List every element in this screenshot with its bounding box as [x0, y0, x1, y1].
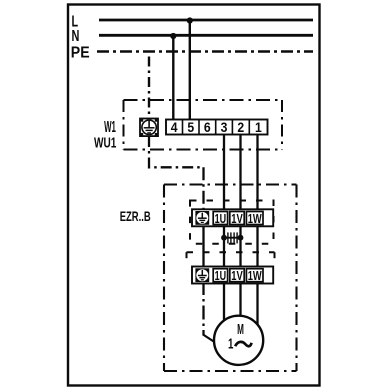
wire V (terminal 2 to motor) — [239, 134, 241, 317]
junction dot on N bus — [170, 33, 176, 39]
junction dot on wire U — [221, 235, 227, 241]
terminal strip 1U 1V 1W (upper) — [192, 209, 273, 226]
svg-text:3: 3 — [221, 120, 228, 135]
svg-text:1V: 1V — [231, 212, 243, 226]
svg-text:EZR..B: EZR..B — [120, 208, 151, 224]
svg-text:1W: 1W — [248, 212, 262, 226]
motor enclosure top edge (dashed) — [187, 251, 275, 253]
ground terminal (lower strip) — [195, 268, 209, 282]
wire W (terminal 1 to motor) — [256, 134, 258, 325]
plug connector contact bars — [227, 232, 238, 243]
enclosure box EZR..B (dash-dot) — [164, 185, 297, 372]
ground terminal (upper strip) — [195, 211, 209, 225]
svg-text:5: 5 — [187, 120, 194, 135]
svg-text:M: M — [237, 322, 244, 338]
svg-text:N: N — [72, 28, 80, 45]
motor enclosure side stubs (dashed) — [186, 252, 188, 262]
pin 1W (lower) — [246, 269, 263, 282]
terminal strip 1U 1V 1W (lower) — [192, 267, 273, 284]
border frame — [68, 5, 320, 386]
svg-text:PE: PE — [71, 45, 90, 62]
svg-text:2: 2 — [237, 120, 244, 135]
plug connector link wire — [224, 237, 241, 239]
svg-text:1W: 1W — [248, 269, 262, 283]
wire PE vertical into controller (dash-dot) — [202, 167, 204, 212]
svg-text:W1: W1 — [104, 119, 116, 136]
junction dot on L bus — [187, 17, 193, 23]
ground terminal W1 — [140, 119, 158, 137]
wire U (terminal 3 to motor) — [223, 134, 225, 321]
svg-text:1: 1 — [228, 337, 233, 353]
wire PE between terminal strips — [202, 222, 204, 270]
connector enclosure around strip 1 (dashed) — [190, 201, 274, 244]
pin 1W (upper) — [246, 212, 263, 225]
pin 1V (upper) — [230, 212, 244, 225]
junction dot on wire V — [238, 235, 244, 241]
wire PE below ground terminal (dash-dot) — [149, 136, 204, 167]
pin 1U (lower) — [213, 269, 227, 282]
terminal strip 4 5 6 3 2 1 — [166, 120, 268, 136]
wire PE below strip 2 (dash-dot) — [202, 281, 204, 336]
pin 1U (upper) — [213, 212, 227, 225]
wire N bus — [99, 34, 313, 37]
pin 1V (lower) — [230, 269, 244, 282]
svg-text:6: 6 — [204, 120, 211, 135]
wire N drop to terminal 4 — [172, 35, 174, 120]
svg-text:1: 1 — [255, 120, 262, 135]
wire PE drop (dash-dot) to ground terminal — [148, 57, 150, 119]
wire L drop to terminal 5 — [189, 20, 191, 120]
motor M1 circle — [214, 316, 263, 365]
svg-text:4: 4 — [171, 120, 178, 135]
wire L bus — [99, 19, 313, 22]
wire PE bus (dash-dot) — [97, 50, 313, 53]
enclosure box W1 (dash-dot) — [124, 100, 283, 150]
wire PE diagonal tick to motor frame — [203, 335, 215, 343]
svg-text:1V: 1V — [231, 269, 243, 283]
svg-text:1U: 1U — [215, 269, 227, 283]
svg-text:1U: 1U — [215, 212, 227, 226]
svg-text:WU1: WU1 — [94, 135, 116, 151]
